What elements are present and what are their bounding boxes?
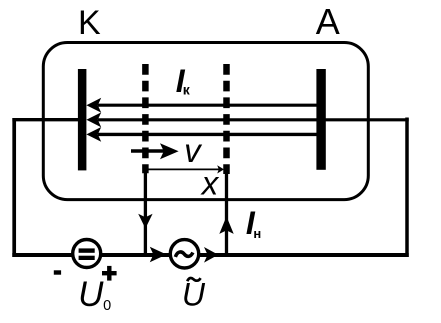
wire: cathode lead xyxy=(12,118,78,121)
cathode current arrow (down) xyxy=(138,214,152,229)
svg-text:0: 0 xyxy=(103,298,111,314)
electron beam arrow top xyxy=(86,98,316,113)
svg-text:U: U xyxy=(78,275,104,314)
svg-text:x: x xyxy=(200,165,220,202)
tube envelope xyxy=(43,43,368,200)
velocity arrow v xyxy=(131,143,179,159)
current arrow out of ac source xyxy=(204,247,218,263)
svg-text:K: K xyxy=(78,4,101,42)
cathode current lead (down from left grid plane) xyxy=(144,171,147,255)
electron beam arrow middle / anode lead wire xyxy=(86,112,408,127)
ac source U~ xyxy=(170,240,198,268)
wire: left vertical xyxy=(12,118,16,257)
cathode K electrode xyxy=(78,69,87,170)
load current lead (down from right grid plane) xyxy=(225,174,228,255)
minus terminal xyxy=(54,270,61,274)
svg-text:н: н xyxy=(253,226,261,241)
svg-text:v: v xyxy=(184,132,203,169)
wire: right vertical xyxy=(405,118,409,258)
plus terminal xyxy=(102,266,117,281)
electron beam arrow bottom xyxy=(86,127,316,142)
wire: bottom xyxy=(12,253,408,257)
load current arrow I_n (up) xyxy=(219,216,233,234)
anode A electrode xyxy=(316,69,325,170)
current arrow into ac source xyxy=(150,247,167,263)
grid plane left (dashed) xyxy=(142,64,149,173)
distance arrow x xyxy=(146,165,224,173)
dc source U0 xyxy=(73,240,101,268)
grid plane right (dashed) xyxy=(223,64,230,174)
ac source symbol ~ xyxy=(175,252,193,257)
svg-text:к: к xyxy=(183,81,191,97)
svg-text:U: U xyxy=(182,277,206,313)
svg-text:A: A xyxy=(316,1,340,42)
dc source symbol = xyxy=(79,248,95,252)
